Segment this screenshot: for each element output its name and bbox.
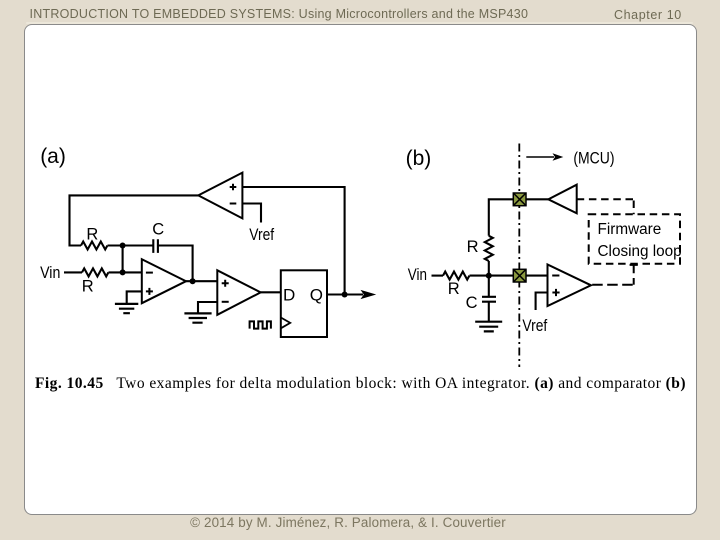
svg-text:Vin: Vin: [408, 265, 427, 284]
svg-text:R: R: [467, 238, 479, 256]
svg-text:C: C: [466, 294, 478, 312]
svg-text:Closing loop: Closing loop: [598, 243, 682, 260]
svg-text:R: R: [82, 277, 94, 295]
svg-text:(a): (a): [40, 145, 66, 168]
svg-text:(b): (b): [406, 147, 432, 170]
svg-text:Vin: Vin: [40, 264, 60, 282]
svg-text:Firmware: Firmware: [598, 221, 662, 238]
svg-text:(MCU): (MCU): [573, 149, 614, 167]
svg-text:R: R: [448, 280, 460, 298]
svg-text:Vref: Vref: [249, 226, 275, 245]
svg-text:Vref: Vref: [522, 317, 548, 336]
svg-text:Q: Q: [310, 286, 323, 305]
svg-text:D: D: [283, 286, 295, 305]
svg-text:C: C: [152, 220, 164, 238]
svg-text:R: R: [86, 226, 98, 244]
